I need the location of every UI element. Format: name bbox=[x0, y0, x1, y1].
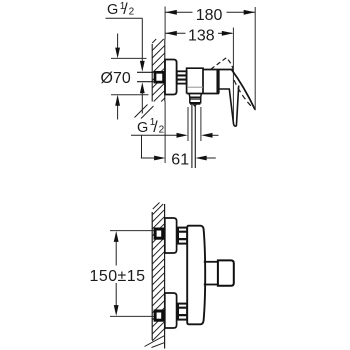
supply pipe in wall (upper) bbox=[137, 71, 154, 73]
wall nut (upper) bbox=[155, 72, 164, 82]
mixer body (upper, side view) bbox=[187, 68, 233, 93]
lever handle dashed (raised position) bbox=[211, 58, 233, 69]
dimension 138 bbox=[165, 27, 233, 124]
body seam line bbox=[187, 86, 203, 88]
handle arm (lower view) bbox=[204, 261, 218, 263]
svg-text:G: G bbox=[137, 120, 148, 136]
dimension O70 bbox=[101, 34, 149, 120]
lever handle solid (upper view) bbox=[219, 86, 239, 127]
escutcheon bottom (lower view) bbox=[165, 293, 177, 328]
svg-text:61: 61 bbox=[171, 151, 189, 168]
svg-text:/: / bbox=[153, 119, 158, 136]
wall nut bottom (lower view) bbox=[155, 311, 163, 320]
union nut bottom (lower view) bbox=[178, 304, 187, 320]
handle cap (lower view) bbox=[218, 260, 234, 285]
G 1/2 label (top) bbox=[106, 1, 145, 114]
wall nut top (lower view) bbox=[155, 229, 163, 238]
hose nipple lines bbox=[191, 105, 193, 168]
wall hatch (lower view) bbox=[145, 203, 165, 349]
shower outlet below body bbox=[189, 94, 201, 103]
escutcheon (upper, side view) bbox=[165, 60, 177, 95]
dimension 180 bbox=[165, 7, 255, 110]
wall face extension line (upper) bbox=[164, 7, 166, 40]
union nut top (lower view) bbox=[178, 228, 187, 244]
svg-text:180: 180 bbox=[196, 7, 223, 24]
svg-text:2: 2 bbox=[159, 124, 165, 135]
svg-text:/: / bbox=[123, 1, 128, 18]
escutcheon top (lower view) bbox=[165, 218, 177, 253]
svg-text:2: 2 bbox=[129, 6, 135, 17]
G 1/2 label (lower-left of upper view) bbox=[131, 117, 219, 158]
outlet edge extension lines bbox=[187, 107, 189, 141]
union nut (upper, side view) bbox=[177, 71, 187, 83]
dimension 61 bbox=[141, 151, 216, 168]
svg-text:Ø70: Ø70 bbox=[101, 70, 131, 87]
wall hatch (upper view) bbox=[135, 39, 165, 119]
svg-text:G: G bbox=[107, 2, 118, 18]
mixer body (lower view) bbox=[187, 226, 205, 325]
svg-text:138: 138 bbox=[188, 27, 215, 44]
svg-text:150±15: 150±15 bbox=[90, 268, 146, 285]
dimension 150 +/- 15 bbox=[90, 231, 158, 317]
